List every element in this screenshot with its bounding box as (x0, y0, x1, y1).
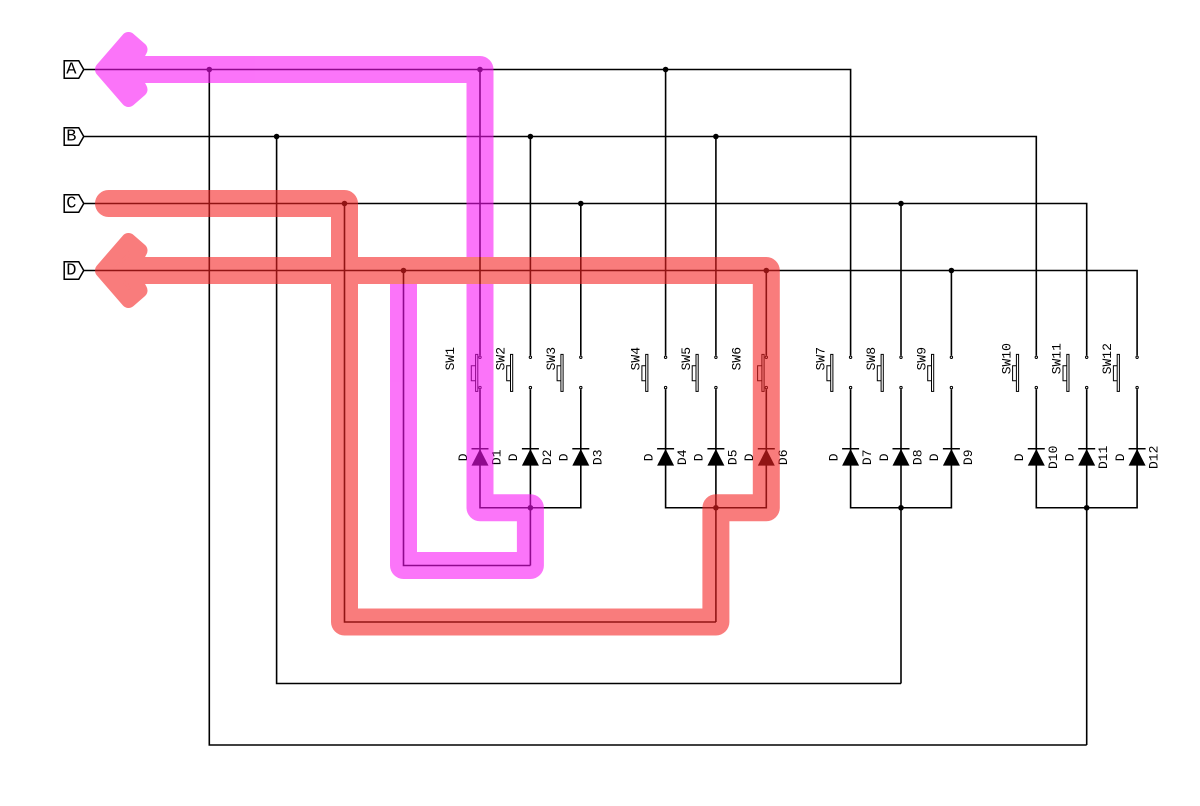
diode D9 (927, 449, 976, 466)
switch SW5 (679, 347, 717, 391)
junction line A / return loop (207, 67, 213, 73)
svg-text:SW10: SW10 (999, 343, 1014, 374)
wire: SW5 top connection (715, 137, 717, 356)
svg-text:C: C (66, 195, 76, 214)
junction diode bus / SW8 column (898, 505, 904, 511)
svg-text:D7: D7 (860, 449, 875, 465)
svg-text:SW5: SW5 (679, 347, 694, 370)
wire: return loop C (left vertical + bottom row) (345, 204, 716, 623)
diode D10 (1012, 446, 1061, 469)
junction line A / SW4 (663, 67, 669, 73)
wire: column line A (84, 70, 851, 356)
junction line C / SW3 (578, 201, 584, 207)
diode D5 (692, 449, 741, 466)
svg-text:SW8: SW8 (864, 347, 879, 370)
svg-text:SW3: SW3 (544, 347, 559, 370)
diode D1 (456, 449, 505, 466)
svg-text:SW2: SW2 (493, 347, 508, 370)
switch SW11 (1050, 343, 1088, 391)
switch SW1 (443, 347, 481, 392)
junction line B / return loop (274, 134, 280, 140)
switch SW2 (493, 347, 531, 391)
global label A (64, 61, 84, 79)
svg-text:D: D (66, 262, 76, 281)
svg-text:D: D (641, 453, 656, 461)
wire: SW11 bottom / group return vertical (1086, 389, 1088, 745)
svg-text:SW11: SW11 (1050, 343, 1065, 374)
svg-text:D11: D11 (1096, 445, 1111, 469)
svg-text:D2: D2 (540, 449, 555, 465)
svg-text:D8: D8 (911, 449, 926, 465)
diode D7 (826, 449, 875, 466)
wire: column line B (84, 137, 1037, 356)
svg-text:SW1: SW1 (443, 347, 458, 371)
highlight path (magenta): net A through SW1/D1 (103, 40, 531, 566)
junction line C / SW8 (898, 201, 904, 207)
wire: diode group bus SW10-SW12 (1036, 389, 1137, 507)
magenta band: along line A and down through SW1 (133, 70, 480, 258)
svg-text:SW6: SW6 (729, 347, 744, 370)
svg-text:D: D (506, 453, 521, 461)
svg-text:D: D (877, 453, 892, 461)
red arrowhead at label D (103, 241, 141, 301)
wire: diode group bus SW4-SW6 (666, 389, 767, 507)
svg-text:A: A (66, 61, 77, 80)
svg-text:SW7: SW7 (814, 347, 829, 370)
switch SW7 (814, 347, 852, 391)
junction line B / SW5 (713, 134, 719, 140)
junction diode bus / SW11 column (1084, 505, 1090, 511)
wire: return loop D (left vertical + bottom row) (404, 271, 531, 566)
highlight path (red): net C/D through SW6/D6 (103, 204, 767, 623)
svg-text:D3: D3 (590, 449, 605, 465)
svg-text:D: D (927, 453, 942, 461)
switch SW3 (544, 347, 582, 391)
wire: column line D (84, 271, 1137, 356)
global label B (64, 128, 84, 146)
svg-text:D: D (826, 453, 841, 461)
wire: SW6 top connection (765, 271, 767, 356)
wire: column line C (84, 204, 1087, 356)
svg-text:D: D (1113, 453, 1128, 461)
diode D6 (742, 449, 791, 466)
magenta band: through D1, diode bus, return loop D (404, 284, 531, 566)
wire: return loop B (left vertical + bottom row) (277, 137, 901, 684)
junction line C / return loop (342, 201, 348, 207)
wire: SW2 bottom / group return vertical (529, 389, 531, 565)
switch SW8 (864, 347, 902, 391)
switch SW9 (914, 347, 952, 391)
switch SW4 (629, 347, 667, 392)
svg-text:D: D (1012, 453, 1027, 461)
svg-text:D: D (1063, 453, 1078, 461)
junction diode bus / SW5 column (713, 505, 719, 511)
wire: diode group bus SW1-SW3 (480, 389, 581, 507)
svg-text:SW9: SW9 (914, 347, 929, 370)
junction line B / SW2 (528, 134, 534, 140)
switch SW12 (1100, 343, 1138, 391)
global label C (64, 195, 84, 213)
junction line D / SW9 (949, 268, 955, 274)
wire: return loop A (left vertical + bottom row) (209, 70, 1086, 746)
svg-text:D9: D9 (961, 449, 976, 465)
junction line A / SW1 (477, 67, 483, 73)
wire: SW1 top connection (479, 70, 481, 356)
switch SW6 (729, 347, 767, 391)
global label D (64, 262, 84, 280)
junction line D / SW6 (764, 268, 770, 274)
svg-text:D5: D5 (725, 449, 740, 465)
svg-text:D4: D4 (675, 449, 690, 465)
diode D8 (877, 449, 926, 466)
svg-text:D: D (692, 453, 707, 461)
junction diode bus / SW2 column (528, 505, 534, 511)
wire: SW8 top connection (900, 204, 902, 356)
wire: SW3 top connection (580, 204, 582, 356)
diode D11 (1063, 445, 1112, 469)
svg-text:D10: D10 (1046, 446, 1061, 469)
wire: SW9 top connection (950, 271, 952, 356)
svg-text:SW12: SW12 (1100, 343, 1115, 374)
wire: SW4 top connection (665, 70, 667, 356)
diode D3 (557, 449, 606, 466)
switch SW10 (999, 343, 1037, 391)
magenta arrowhead at label A (103, 40, 141, 100)
wire: SW5 bottom / group return vertical (715, 389, 717, 622)
svg-text:D12: D12 (1147, 446, 1162, 469)
svg-text:SW4: SW4 (629, 347, 644, 371)
wire: diode group bus SW7-SW9 (851, 389, 952, 507)
diode D12 (1113, 446, 1162, 469)
diode D4 (641, 449, 690, 466)
diode D2 (506, 449, 555, 466)
svg-text:B: B (66, 128, 76, 147)
red band: line D, SW6/D6, bus, return loop C, line C (109, 204, 767, 623)
wire: SW8 bottom / group return vertical (900, 389, 902, 683)
junction line D / return loop (401, 268, 407, 274)
wire: SW2 top connection (529, 137, 531, 356)
svg-text:D: D (557, 453, 572, 461)
